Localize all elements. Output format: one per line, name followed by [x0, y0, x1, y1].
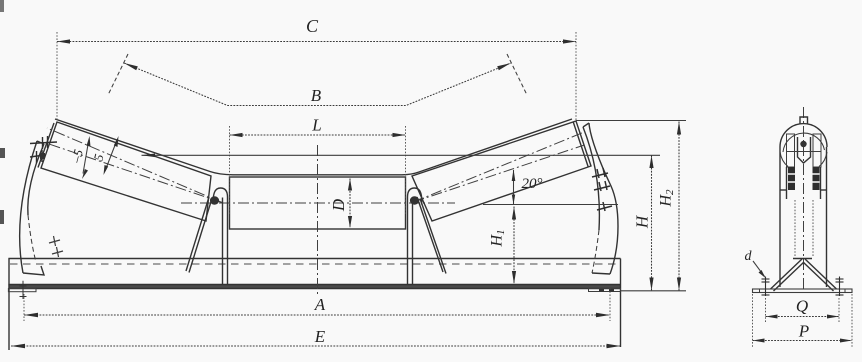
base plate	[753, 289, 853, 293]
right bracket shaft	[410, 196, 419, 204]
base left end edge	[8, 259, 10, 351]
svg-text:d: d	[745, 249, 753, 264]
left roller axis normal	[46, 143, 222, 203]
dimension C extension left	[56, 32, 58, 122]
dimension L extensions	[229, 126, 231, 215]
dimension B arrows	[124, 63, 138, 70]
right guard bolt 3	[597, 202, 612, 211]
bolt bar left	[788, 167, 795, 190]
roller end circle lower arcs	[780, 152, 788, 167]
ground reference line right	[620, 290, 686, 292]
dimension C arrows	[57, 39, 70, 43]
svg-text:20°: 20°	[522, 176, 543, 192]
base frame bottom flange band	[8, 285, 620, 289]
left spindle blob	[40, 153, 45, 159]
left roller end edge double line	[38, 123, 54, 168]
left guard outer arc	[20, 141, 37, 273]
angle reference line	[483, 204, 618, 206]
right foot pad	[589, 289, 621, 292]
center roller	[230, 177, 406, 229]
scan artifact left edge marks	[0, 148, 5, 158]
Q extensions	[765, 298, 767, 322]
dimension A line	[24, 314, 610, 316]
right guard inner arc upper	[583, 127, 599, 230]
dimension H1 line	[513, 207, 515, 285]
step lines	[780, 189, 787, 191]
svg-text:P: P	[798, 322, 809, 341]
svg-text:L: L	[311, 116, 321, 135]
left guard lower bolt 1	[49, 236, 60, 246]
left bracket leg	[186, 197, 209, 271]
5 offset dim line 2	[105, 140, 117, 171]
right guard bolt 2	[594, 181, 610, 191]
left spindle stud 2	[30, 150, 45, 163]
dimension L line	[230, 134, 406, 136]
20 degree arrow	[513, 170, 515, 204]
hidden slot lines	[794, 200, 796, 257]
dimension E arrows	[11, 344, 25, 348]
left guard inner arc lower dashed	[28, 215, 36, 262]
base plate end squares	[753, 289, 760, 293]
svg-text:B: B	[311, 86, 322, 105]
dimension E line	[11, 345, 621, 347]
slot	[798, 137, 811, 163]
right guard bottom cap	[592, 273, 610, 274]
H2 top reference line	[576, 120, 686, 122]
right guard top cap	[583, 123, 589, 127]
base right end edge	[620, 259, 622, 348]
svg-text:Q: Q	[796, 297, 808, 316]
dimension D arrows	[348, 179, 352, 191]
dimension C extension right	[575, 32, 577, 121]
right guard inner arc lower dashed	[592, 230, 599, 273]
right bracket post	[408, 188, 422, 285]
outer wall left	[779, 147, 781, 287]
roller end circle	[780, 124, 827, 147]
left guard top cap	[37, 141, 44, 144]
side view centerline	[803, 107, 805, 293]
belt line over rollers	[55, 119, 572, 175]
outer wall right	[826, 147, 828, 287]
bracket plate right	[813, 134, 821, 167]
cross line	[787, 151, 822, 153]
vertical centerline	[317, 145, 319, 297]
right bracket leg	[417, 197, 443, 272]
left foot bolt	[20, 281, 27, 299]
dimension D line	[349, 179, 351, 229]
5 offset dim line 1	[83, 145, 88, 174]
dimension H line	[651, 155, 653, 290]
svg-text:C: C	[306, 16, 319, 36]
svg-text:H: H	[633, 214, 652, 229]
left guard lower bolt 2	[52, 247, 63, 257]
dimension B line	[124, 63, 511, 106]
right foot bolts	[599, 289, 604, 292]
right roller end edge double line	[573, 122, 588, 167]
left bracket post	[213, 188, 227, 285]
dimension H2 line	[678, 122, 680, 291]
svg-text:D: D	[329, 198, 348, 212]
dimension Q line	[766, 316, 840, 318]
dimension P line	[753, 340, 853, 342]
center roller axis dash-dot	[181, 202, 455, 204]
svg-text:A: A	[314, 295, 326, 314]
left guard inner arc upper	[28, 144, 44, 215]
left roller axis tilted	[47, 128, 222, 203]
right roller axis normal	[414, 145, 585, 202]
svg-text:E: E	[314, 327, 326, 346]
roller end inner arc	[783, 133, 825, 152]
inner neck walls	[786, 167, 788, 199]
bolt bar right	[813, 167, 820, 190]
left roller	[41, 122, 211, 221]
P extensions	[752, 294, 754, 348]
right roller axis tilted	[414, 132, 585, 202]
right guard outer arc	[589, 123, 618, 274]
base frame hidden dashed line	[10, 263, 619, 265]
left bracket shaft	[210, 196, 219, 204]
left spindle stud 1	[30, 136, 57, 149]
bracket plate left	[787, 134, 795, 167]
plate bolt left	[762, 277, 770, 297]
dimension L arrows	[230, 133, 243, 137]
dimension C line	[57, 41, 576, 43]
d leader line	[753, 261, 765, 277]
V bracket left leg	[771, 259, 803, 289]
dimension A extensions	[23, 294, 25, 321]
shaft end	[800, 141, 806, 147]
left guard bottom cap	[23, 266, 44, 275]
right guard bolt 1	[592, 168, 608, 178]
left foot pad	[8, 289, 36, 292]
base frame top edge	[8, 258, 620, 260]
right roller	[412, 121, 591, 221]
V bracket right leg	[805, 259, 837, 289]
plate bolt right	[836, 277, 844, 297]
scan artifact top-left corner	[0, 0, 4, 12]
roller top reference line	[142, 154, 661, 156]
V bracket apex tick	[793, 258, 812, 260]
top tab	[800, 117, 808, 124]
dimension A arrows	[24, 313, 38, 317]
dimension B extension stubs	[108, 54, 128, 95]
